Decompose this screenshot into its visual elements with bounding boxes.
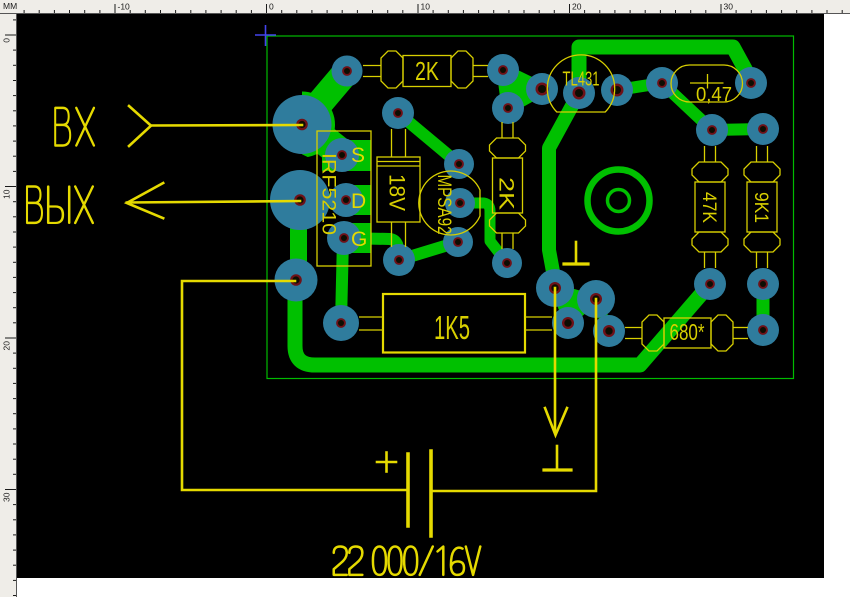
pad node C047-B <box>735 67 767 99</box>
pad node 1K5-A <box>323 305 359 341</box>
svg-text:30: 30 <box>2 492 12 502</box>
origin crosshair <box>255 25 276 46</box>
wire capacitor to ground cluster <box>433 299 596 491</box>
board outline <box>267 36 794 379</box>
wire trace: 0.47 left pad to 47K top pad <box>662 83 712 130</box>
resistor 2K horizontal <box>363 51 488 88</box>
pad node BX pad <box>273 95 332 154</box>
wire trace: 18V bottom to MPSA92 bottom <box>399 242 458 260</box>
wire ground arrow <box>554 288 557 431</box>
resistor 680* <box>625 315 748 351</box>
resistor 1K5 <box>359 294 552 353</box>
pad pin TL431-1 <box>526 73 558 105</box>
pad node 2K-A <box>332 56 363 87</box>
left ruler <box>2 20 17 596</box>
wire trace: blob 2K right / 2Kv top / TL431 left <box>503 70 542 108</box>
pad node 2Kv-A <box>492 92 524 124</box>
svg-text:0: 0 <box>2 38 12 43</box>
pad node 9K1-A <box>747 113 779 145</box>
wire trace: VYX pad to drain D <box>300 194 346 207</box>
pad pin MPSA92-C <box>443 227 473 257</box>
mounting hole donut <box>588 170 650 232</box>
wire trace: 9K1 bottom to 680 right pad <box>757 284 770 330</box>
wire trace: ground cluster joins <box>555 288 596 323</box>
wire trace: TL431 mid down to ground cluster <box>549 93 579 288</box>
wire trace: TL431 right to 0.47 left pad <box>617 83 662 90</box>
capacitor plus sign <box>377 461 396 464</box>
pad node 9K1-B <box>747 268 779 300</box>
pad node 680-A <box>593 315 625 347</box>
wire trace: 47K top to 9K1 top <box>712 129 763 130</box>
transistor MPSA92 <box>419 171 480 235</box>
wire trace: 18V top to MPSA92 top <box>398 113 459 164</box>
pad pin G <box>327 221 361 255</box>
IC TL431 <box>547 55 614 112</box>
svg-text:-10: -10 <box>118 2 131 12</box>
capacitor 0,47 <box>671 65 743 106</box>
svg-text:TL431: TL431 <box>563 69 600 91</box>
wire trace: blob input pads <box>269 92 335 158</box>
svg-text:30: 30 <box>724 2 734 12</box>
svg-text:0: 0 <box>269 2 274 12</box>
svg-text:2K: 2K <box>415 56 439 86</box>
svg-text:S: S <box>351 144 365 167</box>
pad pin S <box>325 138 359 172</box>
pad pin TL431-2 <box>563 77 595 109</box>
wire VYX arrow <box>127 183 163 218</box>
svg-text:680*: 680* <box>670 319 705 345</box>
svg-text:1K5: 1K5 <box>434 309 470 346</box>
copper fill pad D <box>346 185 371 215</box>
svg-text:10: 10 <box>421 2 431 12</box>
capacitor 22000/16V plates <box>406 454 410 526</box>
copper fill pad G <box>344 223 371 253</box>
resistor 2K vertical <box>490 122 526 249</box>
wire minus rail to capacitor <box>182 281 406 490</box>
wire trace: ground loop bottom rail <box>295 281 710 365</box>
svg-text:MPSA92: MPSA92 <box>433 175 454 235</box>
wire trace: gate G to 18V bottom <box>344 238 399 260</box>
pad node C047-A <box>646 67 678 99</box>
wire BX arrow <box>129 106 151 146</box>
label 22 000/16V <box>334 547 481 575</box>
pad node 18V-K <box>382 97 414 129</box>
pad node GND-P1 <box>536 269 574 307</box>
svg-text:47K: 47K <box>698 192 719 223</box>
svg-text:G: G <box>351 228 367 251</box>
pad node 2K-B <box>487 54 519 86</box>
resistor 47K <box>692 146 728 268</box>
pad node VYX pad <box>270 170 330 230</box>
wire trace: gate G down to 1K5 left <box>341 238 343 323</box>
copper fill pad S <box>322 140 371 171</box>
wire trace: VYX pad down to GND pad <box>290 224 307 262</box>
pad pin D <box>329 183 363 217</box>
svg-text:D: D <box>351 190 366 213</box>
diode 18V <box>377 129 420 247</box>
ground symbol near cluster <box>575 242 578 262</box>
pad node GND-P3 <box>552 307 584 339</box>
pad pin MPSA92-B <box>445 188 475 218</box>
node VYX label <box>27 187 93 223</box>
node BX label <box>55 108 94 146</box>
svg-text:18V: 18V <box>385 174 410 211</box>
svg-text:20: 20 <box>2 341 12 351</box>
ground symbol below arrow <box>556 446 559 468</box>
svg-text:2K: 2K <box>494 177 517 210</box>
pad node 47K-A <box>696 114 728 146</box>
svg-text:0,47: 0,47 <box>696 84 732 106</box>
wire trace: top rail TL431 to 0.47 pad <box>579 47 751 93</box>
svg-text:MM: MM <box>3 1 17 11</box>
pad node 18V-A <box>383 244 415 276</box>
svg-text:20: 20 <box>572 2 582 12</box>
pad pin MPSA92-E <box>444 149 474 179</box>
resistor 9K1 <box>744 146 780 268</box>
pad node 680-B <box>747 314 779 346</box>
pad node GND pad <box>275 259 318 302</box>
pad node 2Kv-B <box>492 248 522 278</box>
svg-text:10: 10 <box>2 189 12 199</box>
svg-text:9K1: 9K1 <box>750 192 771 223</box>
pad pin TL431-3 <box>601 74 633 106</box>
pad node GND-P2 <box>577 280 615 318</box>
pad node 47K-B <box>694 268 726 300</box>
transistor IRF5210 <box>317 131 371 266</box>
wire trace: MPSA92 mid to 2K vertical bottom <box>460 203 507 263</box>
svg-text:IRF5210: IRF5210 <box>318 153 339 235</box>
